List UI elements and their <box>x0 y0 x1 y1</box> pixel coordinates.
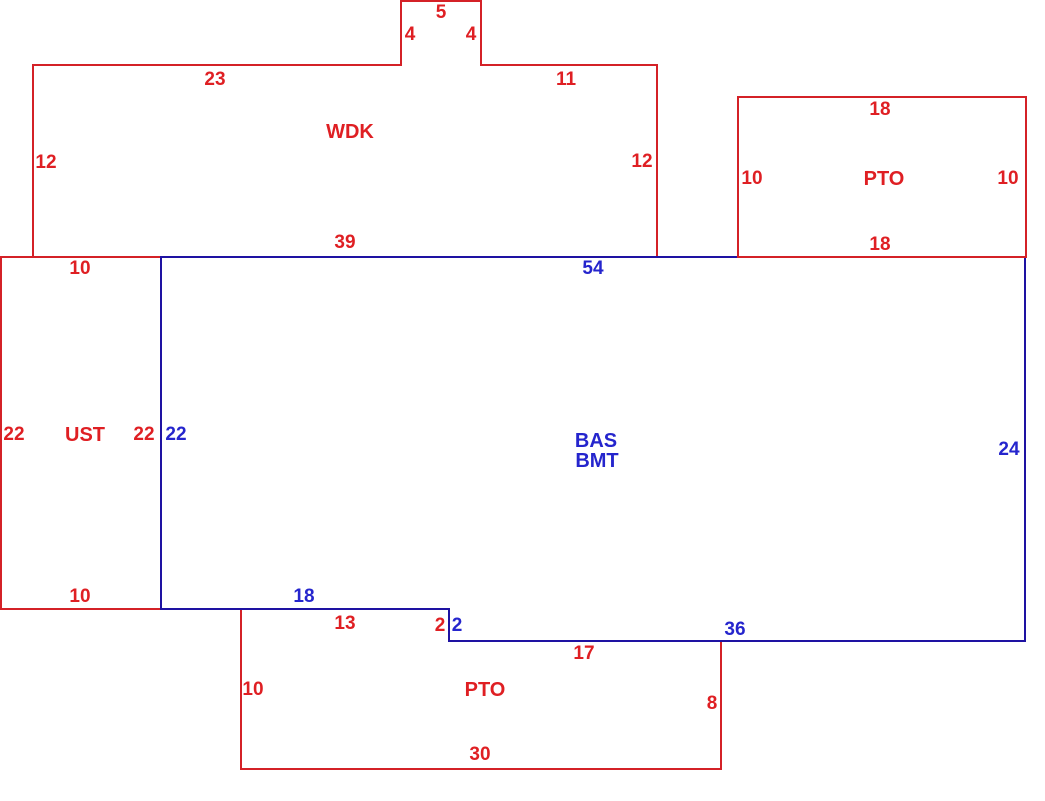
svg-text:4: 4 <box>466 24 477 45</box>
svg-text:54: 54 <box>582 258 604 279</box>
svg-text:WDK: WDK <box>326 121 374 143</box>
svg-text:24: 24 <box>998 439 1020 460</box>
svg-text:BAS: BAS <box>575 430 617 452</box>
UST area outline <box>1 257 161 609</box>
BAS/BMT area outline <box>161 257 1025 641</box>
svg-text:PTO: PTO <box>465 679 506 701</box>
svg-text:10: 10 <box>242 679 263 700</box>
svg-text:22: 22 <box>165 424 186 445</box>
svg-text:12: 12 <box>35 152 56 173</box>
svg-text:17: 17 <box>573 643 594 664</box>
svg-text:22: 22 <box>133 424 154 445</box>
svg-text:10: 10 <box>69 586 90 607</box>
svg-text:30: 30 <box>469 744 490 765</box>
svg-text:2: 2 <box>452 615 463 636</box>
svg-text:13: 13 <box>334 613 355 634</box>
PTO top-right area outline <box>738 97 1026 257</box>
svg-text:39: 39 <box>334 232 355 253</box>
svg-text:10: 10 <box>997 168 1018 189</box>
svg-text:10: 10 <box>741 168 762 189</box>
svg-text:8: 8 <box>707 693 718 714</box>
svg-text:PTO: PTO <box>864 168 905 190</box>
svg-text:22: 22 <box>3 424 24 445</box>
svg-text:11: 11 <box>556 69 577 90</box>
svg-text:UST: UST <box>65 424 105 446</box>
svg-text:12: 12 <box>631 151 652 172</box>
svg-text:4: 4 <box>405 24 416 45</box>
svg-text:BMT: BMT <box>575 450 618 472</box>
svg-text:5: 5 <box>436 2 447 23</box>
PTO bottom area outline <box>241 609 721 769</box>
svg-text:23: 23 <box>204 69 225 90</box>
svg-text:2: 2 <box>435 615 446 636</box>
svg-text:18: 18 <box>869 234 890 255</box>
svg-text:18: 18 <box>869 99 890 120</box>
svg-text:36: 36 <box>724 619 745 640</box>
svg-text:10: 10 <box>69 258 90 279</box>
WDK area outline <box>33 1 657 257</box>
svg-text:18: 18 <box>293 586 314 607</box>
